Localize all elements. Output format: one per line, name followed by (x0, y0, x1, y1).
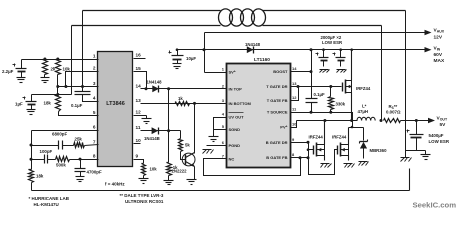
wire B GATE DR net (291, 142, 309, 144)
wire T SOURCE net (y=112.2) (291, 113, 353, 121)
wire 18k to pin5 (59, 112, 99, 116)
node dot Q2 drain at Vin (350, 48, 353, 51)
wire comp bus (x=31) (32, 130, 99, 132)
node dot boost/pin14 (310, 70, 313, 73)
ground earth Vout (421, 155, 431, 160)
node dot bg/pin8 (307, 156, 310, 159)
svg-text:8: 8 (93, 154, 96, 159)
label 10k R8 (150, 167, 158, 172)
wire top rail 2 (y=25) (72, 25, 382, 27)
label 0.1uF C2 (71, 103, 83, 108)
node dot pin3/10k (56, 85, 59, 88)
node dot pin2/pin3 (64, 85, 67, 88)
node dot collector junction (193, 102, 196, 105)
svg-text:1N414B: 1N414B (144, 136, 160, 141)
label note dale (120, 193, 164, 204)
wire Vaux line (y=32.5) (205, 32, 427, 34)
transistor Q3 IRFZ44 bottom-left (314, 121, 325, 161)
wire 330k bottom stem (330, 110, 332, 113)
label 0.1uF C8 (314, 92, 325, 97)
svg-text:LT1160: LT1160 (254, 57, 270, 63)
capacitor C4 6800pF (59, 141, 63, 150)
label 18k R3 (44, 101, 52, 106)
node dot 12V line x204 (203, 48, 206, 51)
U1 left pin numbers 1-8 (93, 54, 96, 159)
resistor R10 5k (179, 139, 183, 152)
svg-text:10: 10 (136, 138, 142, 143)
resistor R7 1k horizontal (176, 102, 190, 106)
wire bus riser right (x=409) (409, 169, 411, 191)
label 0.007ohm (386, 110, 401, 115)
label L* (362, 104, 367, 109)
wire bgate loop to Q4 (309, 150, 338, 175)
wire rail1 left drop (x=82) (82, 11, 84, 87)
label LOW ESR C11 (429, 139, 450, 144)
wire U2 pin1 net (205, 72, 227, 74)
node dot Vin/10uF (176, 48, 179, 51)
wire U2 pin4 stub (214, 118, 227, 130)
wire U1 pin12 gnd stub (134, 115, 147, 117)
node dot 330k bottom (329, 111, 332, 114)
label 6800pF (52, 131, 67, 136)
svg-text:11: 11 (136, 125, 141, 130)
svg-text:500k: 500k (56, 163, 66, 168)
svg-text:10µF: 10µF (186, 56, 196, 61)
ground earth C3 (27, 110, 36, 115)
svg-text:SeekIC.com: SeekIC.com (413, 201, 457, 210)
svg-text:5400µF: 5400µF (429, 133, 444, 138)
label 1N4148 D1 (147, 79, 163, 84)
svg-text:1µF: 1µF (15, 102, 23, 107)
svg-text:BOOST: BOOST (273, 69, 288, 74)
label IRFZ44 Q4 (332, 135, 347, 140)
IC U2 LT1160 body (227, 64, 291, 168)
node dot D2 cathode junction (167, 129, 170, 132)
svg-text:0.1µF: 0.1µF (314, 92, 325, 97)
wire U1 pin16 stub (134, 58, 146, 60)
label MBR360 (370, 148, 388, 153)
resistor R2 10k (56, 60, 61, 75)
node dot loopA/pin8 (299, 156, 302, 159)
ground earth C6 (76, 177, 85, 182)
svg-text:18k: 18k (36, 174, 44, 179)
wire collector vertical (194, 104, 196, 154)
terminal arrow Vin (425, 47, 432, 52)
wire 1uF top drop (31, 95, 33, 102)
terminal arrow Vout (428, 118, 435, 123)
label 1k R7 (178, 96, 183, 101)
svg-text:47µH: 47µH (358, 109, 369, 114)
svg-text:PGND: PGND (229, 143, 241, 148)
node dot Vout/cap (415, 119, 418, 122)
svg-text:MAX: MAX (434, 58, 445, 64)
wire pin8 net left (32, 159, 45, 161)
svg-text:ULTRONIX RCS01: ULTRONIX RCS01 (125, 199, 164, 204)
node dot gate feed (307, 148, 310, 151)
label f = 40kHz (105, 182, 125, 187)
transistor Q2 IRFZ44 top (343, 50, 352, 121)
transistor Q1 2N2222 (182, 153, 195, 167)
svg-text:2: 2 (93, 66, 96, 71)
wire 500k to pin8 (70, 159, 99, 161)
wire C2 to pin4 net (83, 95, 99, 102)
svg-text:60V: 60V (434, 52, 443, 58)
wire D2 node down to 1k (168, 131, 170, 163)
label 10k (63, 67, 71, 72)
resistor R8 10k vertical (142, 164, 146, 176)
label 5400uF (429, 133, 444, 138)
label IRFZ44 Q3 (309, 135, 324, 140)
IC U1 LT3846 body (98, 52, 133, 167)
wire 4700pF stem (80, 160, 82, 169)
wire pin7 net left (32, 145, 59, 147)
ground chassis D4 (359, 162, 369, 166)
ground chassis C10 (337, 70, 347, 73)
node dot 10k top (56, 58, 59, 61)
wire MBR360 top lead (363, 128, 365, 141)
svg-text:14: 14 (136, 83, 142, 88)
wire rail1 right drop (x=405) (405, 11, 407, 158)
node dot 330k top (329, 85, 332, 88)
capacitor C2 0.1uF (75, 92, 91, 95)
label LT1160 (254, 57, 270, 63)
label 10uF (186, 56, 196, 61)
label 100pF (40, 149, 53, 154)
wire chassis branch (405, 151, 407, 155)
wire 2k to ground (44, 75, 46, 78)
node dot pin3/rail1 (81, 85, 84, 88)
transistor Q4 IRFZ44 bottom-right (338, 128, 349, 161)
svg-text:HL-KM147U: HL-KM147U (34, 202, 59, 207)
wire pin2 net (66, 72, 99, 87)
label Vaux 12V (434, 28, 445, 41)
svg-text:100pF: 100pF (40, 149, 53, 154)
ground earth C1 (17, 78, 26, 83)
svg-text:10k: 10k (150, 167, 158, 172)
wire bottom bus (y=190.3) (32, 190, 410, 192)
resistor R6 18k lower (29, 170, 34, 183)
wire C4 to 25k (63, 145, 74, 147)
svg-text:330k: 330k (336, 102, 346, 107)
wire U1 pin9 stub (134, 160, 144, 164)
wire gate feed Q3 (309, 149, 314, 151)
wire Rs to Vout (401, 120, 429, 122)
wire 18k to bottom bus (31, 183, 33, 191)
capacitor C10 2000uF B (333, 53, 346, 61)
resistor R12 Rs 0.007ohm (384, 119, 401, 123)
wire IN TOP net (y=88.8) (141, 88, 227, 90)
svg-text:L*: L* (362, 104, 367, 109)
transformer T1 coupled-inductor loops (219, 9, 266, 26)
label 2k (51, 67, 56, 72)
svg-text:5k: 5k (185, 143, 190, 148)
ground chassis Q3 (321, 164, 332, 168)
label 1N4148 D3 (245, 42, 261, 47)
wire SV+ feed (x=204) (204, 33, 206, 73)
ground earth R9 (164, 181, 174, 185)
wire 5k to base (181, 152, 186, 160)
ground earth C7 (173, 64, 182, 69)
svg-text:1: 1 (93, 54, 96, 59)
wire pins12-13 jumper (291, 87, 299, 101)
wire pin12 gnd stem (146, 116, 148, 119)
wire 0.1uF top stem (82, 87, 84, 92)
node dot switch/Q2 source (350, 119, 353, 122)
U2 left pin names (229, 70, 252, 162)
capacitor C11 5400uF (407, 130, 424, 138)
capacitor C7 10uF (169, 51, 184, 60)
wire capA to chassis (323, 61, 325, 67)
label SeekIC.com watermark (413, 201, 457, 210)
svg-text:MBR360: MBR360 (370, 148, 388, 153)
label 2.2uF (2, 69, 14, 74)
node dot pin8/4700pF (79, 158, 82, 161)
svg-text:16: 16 (136, 53, 142, 58)
label 5k (185, 143, 190, 148)
wire rail2 left drop (x=71) (71, 26, 73, 95)
wire switch riser (x=352) (352, 121, 354, 128)
wire C3 to ground (31, 105, 33, 110)
wire U2 pin5 stub (214, 129, 227, 131)
resistor R4 25k (74, 143, 85, 148)
capacitor C5 100pF (45, 155, 48, 164)
node dot vref/10k (56, 93, 59, 96)
svg-text:1N4148: 1N4148 (245, 42, 261, 47)
wire switch node (y=120.5) (291, 121, 358, 128)
node dot pin15/diode line (145, 87, 148, 90)
wire capB to chassis (340, 61, 342, 67)
label 1N4148 D2 (144, 136, 160, 141)
svg-text:IN BOTTOM: IN BOTTOM (229, 101, 252, 106)
ground chassis Vout (401, 158, 412, 162)
wire U1 pin15 stub (134, 72, 147, 89)
wire top rail 1 (y=10) (83, 10, 406, 12)
node dot tg jumper (297, 85, 300, 88)
capacitor C3 1uF (23, 97, 37, 105)
node dot 2k top (43, 58, 46, 61)
svg-text:LT3846: LT3846 (106, 101, 125, 107)
diode D4 MBR360 (360, 140, 368, 149)
svg-text:f = 40kHz: f = 40kHz (105, 182, 125, 187)
terminal arrow Vaux (425, 30, 432, 35)
wire pin11 diode net (y=130.7) (141, 130, 181, 132)
svg-text:10k: 10k (63, 67, 71, 72)
wire 5k branch (180, 131, 182, 139)
wire 2.2uF top drop (21, 60, 23, 69)
svg-text:6: 6 (93, 125, 96, 130)
svg-text:LOW ESR: LOW ESR (429, 139, 450, 144)
wire pin3 net (y=86.5) (58, 86, 99, 88)
wire C11 bottom tee (406, 138, 426, 151)
resistor R11 330k (329, 97, 334, 110)
wire boost drop (x=311) (311, 50, 313, 99)
label 330k (336, 102, 346, 107)
node dot L/Rs sense (380, 119, 383, 122)
ground chassis Q4 (344, 164, 355, 168)
ground earth R1 (41, 78, 50, 83)
diode D2 1N4148 (152, 127, 159, 134)
wire IN BOTTOM net (y=103.4) (141, 103, 227, 105)
svg-text:2.2µF: 2.2µF (2, 69, 14, 74)
svg-text:13: 13 (292, 81, 297, 86)
U2 right pin numbers (292, 66, 297, 157)
label 1uF (15, 102, 23, 107)
wire 10k to ground (143, 176, 145, 179)
label IRFZ44 Q2 (356, 86, 371, 91)
label Vout 5V (437, 116, 448, 128)
wire MBR360 to ground (363, 149, 365, 159)
label note hurricane (29, 196, 70, 207)
capacitor C8 0.1uF boost (306, 99, 318, 103)
resistor R5 500k (56, 157, 70, 162)
capacitor C6 4700pF (75, 169, 86, 172)
label 2000uF x2 (321, 35, 342, 40)
svg-text:25k: 25k (75, 136, 83, 141)
wire C8 to T SOURCE (311, 103, 313, 113)
resistor R3 18k (56, 95, 61, 112)
svg-text:0.007Ω: 0.007Ω (386, 110, 401, 115)
wire 10k down to pin3 net (57, 75, 59, 95)
svg-text:18k: 18k (44, 101, 52, 106)
label 500k (56, 163, 66, 168)
node dot Q3 drain (323, 119, 326, 122)
svg-text:15: 15 (136, 66, 142, 71)
wire pins8-9 jumper (308, 143, 310, 158)
wire 25k to pin7 (85, 145, 99, 146)
svg-text:0.1µF: 0.1µF (71, 103, 83, 108)
node dot boost corner (310, 48, 313, 51)
svg-text:12: 12 (292, 95, 297, 100)
svg-text:1k: 1k (178, 96, 183, 101)
svg-text:IRFZ44: IRFZ44 (356, 86, 371, 91)
ground earth SGND (209, 137, 219, 142)
wire Vin line (y=50) (178, 49, 427, 51)
node dot C8/T SOURCE (310, 111, 313, 114)
wire C5 to 500k (48, 159, 56, 161)
svg-text:IN TOP: IN TOP (229, 87, 243, 92)
resistor R9 1k vertical (167, 163, 172, 176)
wire U2 pin14 stub (291, 71, 312, 73)
label 4700pF (87, 170, 102, 175)
svg-text:IRFZ44: IRFZ44 (332, 135, 347, 140)
svg-text:6800pF: 6800pF (52, 131, 67, 136)
U2 right pin names (266, 69, 288, 160)
svg-text:4: 4 (93, 96, 96, 101)
svg-text:7: 7 (93, 139, 96, 144)
node dot Vin/capB (339, 48, 342, 51)
diode D3 1N4148 boost (247, 46, 254, 53)
node dot riser (351, 126, 354, 129)
wire capB stem (340, 50, 342, 58)
node dot comp/6800pF (30, 144, 33, 147)
svg-text:9: 9 (136, 154, 139, 159)
node dot D1 cathode junction (167, 87, 170, 90)
resistor R1 2k (43, 60, 48, 75)
wire U2 pin6 stub (207, 145, 227, 147)
svg-text:2N2222: 2N2222 (172, 168, 188, 173)
wire comp bus vertical (31, 131, 33, 170)
svg-text:T SOURCE: T SOURCE (267, 110, 288, 115)
inductor L1 47uH (357, 117, 375, 120)
svg-text:1N4148: 1N4148 (147, 79, 163, 84)
wire C1 to ground (21, 72, 23, 78)
label Vin 60V MAX (434, 45, 445, 64)
diode D1 1N4148 (152, 85, 159, 92)
wire emitter to ground (194, 167, 196, 180)
wire C7 to ground (177, 60, 179, 64)
wire 5400uF stem (416, 121, 418, 135)
wire SGND stem (213, 130, 215, 137)
node dot comp/100pF (30, 158, 33, 161)
label Rs** (389, 104, 398, 110)
ground chassis PGND (203, 150, 214, 154)
capacitor C1 2.2uF (13, 64, 27, 72)
wire pin1 net (y=59) (22, 59, 99, 61)
svg-text:5V: 5V (440, 122, 447, 128)
svg-text:13: 13 (136, 98, 142, 103)
wire 330k top stem (330, 87, 332, 97)
node dot bg jumper top (307, 141, 310, 144)
label 18k R6 (36, 174, 44, 179)
wire 10uF top stem (177, 50, 179, 56)
svg-text:B GATE DR: B GATE DR (266, 140, 288, 145)
U2 left pin numbers (222, 67, 225, 159)
svg-text:T GATE FB: T GATE FB (267, 98, 288, 103)
label 47uH (358, 109, 369, 114)
wire vref node (y=94.5) (32, 94, 72, 96)
wire C6 to ground (80, 172, 82, 177)
label LT3846 (106, 101, 125, 107)
ground earth Q1 (187, 180, 197, 185)
svg-text:12V: 12V (434, 34, 443, 40)
svg-text:B GATE FB: B GATE FB (266, 155, 287, 160)
ground earth R8 (139, 179, 149, 184)
ground chassis C9 (320, 70, 330, 73)
svg-text:** DALE TYPE LVR-3: ** DALE TYPE LVR-3 (120, 193, 164, 198)
wire U2 pin8 stub (291, 157, 309, 159)
wire 1k to ground (168, 176, 170, 181)
U1 right pin numbers 9-16 (136, 53, 142, 159)
svg-text:NC: NC (229, 156, 235, 161)
label LOW ESR caps (322, 40, 343, 45)
svg-text:SGND: SGND (229, 127, 241, 132)
svg-text:4700pF: 4700pF (87, 170, 102, 175)
label 2N2222 (172, 168, 188, 173)
wire diode link vertical (x=168.6) (168, 89, 170, 131)
wire T GATE DR net (y=86.5) (291, 86, 342, 88)
label 1k R9 (173, 165, 178, 170)
svg-text:IRFZ44: IRFZ44 (309, 135, 324, 140)
svg-text:12: 12 (136, 110, 142, 115)
wire drain link (y=127) (349, 127, 364, 129)
svg-text:* HURRICANE LAB: * HURRICANE LAB (29, 196, 70, 201)
node dot Vin/capA (322, 48, 325, 51)
wire U2 pin7 loop to pin8 (204, 158, 301, 176)
svg-text:5: 5 (93, 110, 96, 115)
svg-text:3: 3 (93, 81, 96, 86)
ground earth U1 pin12 (142, 119, 152, 124)
wire U1 pin10 stub (134, 143, 141, 145)
wire earth branch (425, 151, 427, 155)
capacitor C9 2000uF A (316, 53, 329, 61)
label 25k (75, 136, 83, 141)
wire capA stem (323, 50, 325, 58)
svg-text:T GATE DR: T GATE DR (266, 84, 287, 89)
svg-text:UV OUT: UV OUT (229, 115, 245, 120)
wire rail2 right drop (x=381) (381, 26, 383, 121)
svg-text:14: 14 (292, 66, 297, 71)
svg-text:LOW ESR: LOW ESR (322, 40, 343, 45)
